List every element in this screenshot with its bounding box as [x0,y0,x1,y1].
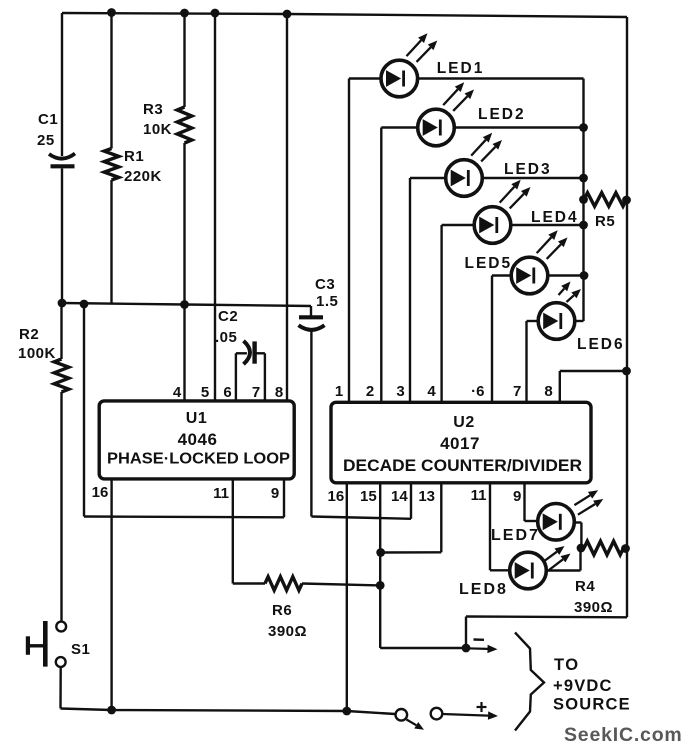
wire U2 pin8 feed [560,370,627,372]
svg-text:.05: .05 [215,329,237,346]
LED LED4 [474,180,530,243]
wire left branch to C1 [61,13,63,156]
capacitor C1 [49,154,75,159]
wire U1 pin16 to bottom rail [110,479,112,711]
wire U1 pin11 to R6 [232,479,234,584]
wire U2 pin15 down [379,482,381,648]
resistor R3 [183,13,185,107]
wire bottom rail [61,709,396,715]
svg-text:LED3: LED3 [504,161,552,178]
svg-text:3: 3 [396,383,404,400]
plus switch contact circle A [396,709,408,721]
wire pin9 frame [83,304,85,517]
node pin15/R6 [376,581,385,590]
LED LED8 [510,546,571,589]
resistor R2 [60,303,62,359]
svg-text:11: 11 [213,485,229,502]
wire C3 to U2 pin14 [311,517,411,519]
svg-text:9: 9 [271,485,279,502]
wire U2 pin9 to LED7 [523,482,525,521]
svg-text:8: 8 [544,383,552,400]
node U2pin16 rail [342,707,351,716]
svg-text:U1: U1 [186,410,207,427]
svg-text:LED8: LED8 [459,581,508,598]
capacitor C3 [310,306,312,316]
svg-text:220K: 220K [124,168,162,185]
op-amp U1 4046 box [99,401,294,479]
resistor R6 [265,577,302,591]
svg-text:SeekIC.com: SeekIC.com [564,724,683,746]
node S1/U1pin16 rail [107,706,116,715]
node R5 right [622,196,631,205]
svg-text:16: 16 [92,484,109,501]
svg-text:R5: R5 [595,213,615,230]
svg-text:LED1: LED1 [437,60,485,77]
node minus terminal [462,644,471,653]
LED LED7 [538,490,604,540]
wire LED2 anode feed from U2 pin2 [381,126,418,128]
wire U1 pin5 from rail [214,13,216,402]
svg-text:·6: ·6 [471,383,484,400]
svg-text:SOURCE: SOURCE [553,696,631,714]
svg-text:+9VDC: +9VDC [553,677,613,695]
svg-text:4: 4 [427,383,436,400]
node LED3 bus [579,174,588,183]
LED LED5 [511,230,567,294]
svg-text:LED5: LED5 [465,255,513,272]
svg-text:R1: R1 [124,148,144,165]
svg-text:25: 25 [37,132,55,149]
svg-text:4046: 4046 [178,430,218,449]
wire LED8 cathode [546,569,581,571]
svg-text:9: 9 [513,488,521,505]
svg-text:4017: 4017 [440,434,480,453]
svg-text:R3: R3 [143,101,163,118]
svg-text:13: 13 [418,488,435,505]
wire LED2 cathode to bus [454,126,584,128]
svg-text:390Ω: 390Ω [574,599,613,616]
wire U2 pin11 to LED8 [489,482,491,570]
resistor R4 [584,541,624,555]
svg-text:LED4: LED4 [531,209,579,226]
node pin9 branch [80,300,89,309]
wire LED1 cathode to bus [417,77,583,79]
plus switch contact circle B [431,708,443,720]
wire S1 to bottom rail [59,667,62,709]
node junction pin5 top rail [211,9,220,18]
svg-text:LED2: LED2 [478,106,526,123]
node pin15/pin13 [376,548,385,557]
svg-text:1.5: 1.5 [316,293,338,310]
wire LED cathode bus [582,79,584,322]
node junction R1 top rail [107,8,116,17]
minus sign [474,638,485,641]
svg-text:R4: R4 [575,578,595,595]
brace to source [515,633,544,731]
minus output arrow [466,647,488,650]
wire top supply rail [62,13,627,17]
plus output arrow [443,714,489,716]
node LED2 bus [579,123,588,132]
svg-text:15: 15 [360,488,377,505]
svg-text:8: 8 [275,384,283,401]
wire pin15 to minus [380,647,466,649]
node R3/pin4 [180,300,189,309]
svg-text:2: 2 [366,383,374,400]
svg-text:100K: 100K [18,345,56,362]
node LED4 bus [579,221,588,230]
svg-text:DECADE COUNTER/DIVIDER: DECADE COUNTER/DIVIDER [343,457,582,475]
node junction R3 top rail [180,9,189,18]
node C1/R2 [58,299,67,308]
svg-text:11: 11 [471,487,487,504]
wire LED1 anode feed from U2 pin1 [349,77,381,79]
node R4 right [621,544,630,553]
svg-text:TO: TO [554,656,580,674]
switch S1 [56,622,66,632]
node LED5 bus [580,271,589,280]
svg-text:S1: S1 [71,641,90,658]
svg-text:10K: 10K [143,121,172,138]
svg-text:U2: U2 [453,414,474,431]
plus sign [477,706,487,708]
LED LED1 [381,33,437,97]
LED LED3 [446,133,502,196]
resistor R1 [110,13,112,149]
svg-text:7: 7 [252,384,260,401]
wire LED4 cathode to bus [511,224,584,226]
svg-text:C2: C2 [218,308,238,325]
wire U1 pin4 [183,305,185,403]
svg-text:4: 4 [173,384,182,401]
plus switch blade arrow [407,720,417,726]
wire right rail to minus branch [466,615,627,618]
wire node row y304 [62,303,311,306]
wire LED4 anode feed from U2 pin4 [442,224,475,226]
LED LED6 [538,282,581,340]
svg-text:C1: C1 [38,111,58,128]
svg-text:LED7: LED7 [491,527,540,544]
wire LED3 cathode to bus [482,177,584,179]
wire LED7 cathode [573,521,581,523]
wire LED6 anode feed from U2 pin7 [527,320,539,322]
svg-text:16: 16 [328,488,345,505]
svg-text:14: 14 [391,488,408,505]
wire U2 pin13 [440,482,442,552]
svg-text:R6: R6 [272,602,292,619]
node junction pin8 top rail [283,10,292,19]
op-amp U2 4017 box [331,402,591,483]
LED LED2 [418,82,474,145]
svg-text:R2: R2 [19,326,39,343]
wire LED3 anode feed from U2 pin3 [410,177,446,179]
svg-text:6: 6 [223,384,231,401]
wire U1 pin8 from rail [286,14,288,402]
node R5 left [579,195,588,204]
wire U2 pin16 to bottom rail [346,482,348,711]
capacitor C2 [235,353,237,401]
wire LED6 cathode to bus [575,320,584,322]
svg-text:5: 5 [201,384,209,401]
svg-text:7: 7 [513,383,521,400]
svg-text:PHASE·LOCKED LOOP: PHASE·LOCKED LOOP [107,451,290,468]
svg-text:LED6: LED6 [577,336,625,353]
resistor R5 [584,193,627,207]
svg-text:1: 1 [335,383,343,400]
svg-text:390Ω: 390Ω [268,623,307,640]
node R4 left [577,544,586,553]
svg-text:C3: C3 [315,276,335,293]
wire LED5 cathode to bus [548,274,584,276]
node pin8 branch right rail [622,367,631,376]
wire LED5 anode feed from U2 pin6 [492,274,512,276]
wire right vertical rail [626,17,628,617]
